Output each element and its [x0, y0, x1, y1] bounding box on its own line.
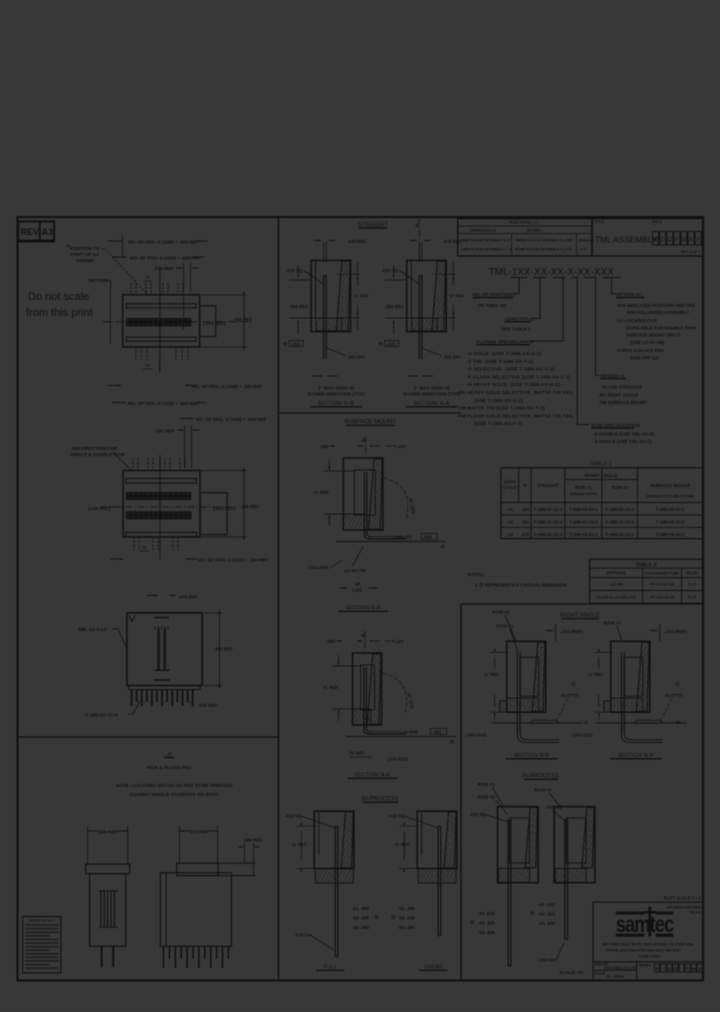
svg-text:-02 .200: -02 .200 — [398, 916, 415, 921]
svg-text:(.100 REF): (.100 REF) — [203, 321, 226, 326]
svg-text:OPTION #2: OPTION #2 — [616, 292, 641, 297]
svg-text:'A' REF: 'A' REF — [313, 490, 329, 495]
svg-text:PICK & PLACE PAD: PICK & PLACE PAD — [147, 765, 192, 771]
svg-text:PT-LS2-07-08: PT-LS2-07-08 — [650, 583, 674, 587]
svg-text:TML ASSEMBLY: TML ASSEMBLY — [595, 235, 658, 245]
svg-text:(.05±.01): (.05±.01) — [394, 535, 412, 540]
svg-text:.075 REF: .075 REF — [198, 703, 218, 708]
svg-text:DIMENSIONS IN: DIMENSIONS IN — [470, 228, 496, 232]
svg-text:.075 REF: .075 REF — [189, 829, 209, 834]
svg-text:F: F — [675, 237, 679, 244]
svg-text:(.05±.010): (.05±.010) — [572, 733, 593, 738]
svg-text:TML-XX-X-LC: TML-XX-X-LC — [78, 627, 108, 632]
svg-text:-S SELECTIVE- (USE T-1M6-XX-S: -S SELECTIVE- (USE T-1M6-XX-S-2) — [467, 367, 555, 373]
svg-text:OPTIONS: OPTIONS — [607, 571, 626, 576]
svg-text:PACKAGING TUBE: PACKAGING TUBE — [645, 572, 680, 576]
svg-text:6914416-LS-1-03: 6914416-LS-1-03 — [604, 965, 637, 970]
svg-text:.1XX: .1XX — [386, 342, 396, 347]
svg-text:(SINGLE ROW): (SINGLE ROW) — [570, 492, 598, 496]
svg-text:.025 REF: .025 REF — [347, 239, 366, 244]
svg-text:⊕: ⊕ — [374, 915, 379, 921]
svg-text:⊕: ⊕ — [440, 544, 445, 550]
svg-text:P-12: P-12 — [688, 594, 697, 599]
svg-text:ONE PLACE DECIMALS ± .1: ONE PLACE DECIMALS ± .1 — [461, 239, 510, 243]
svg-text:-05 THRU -50: -05 THRU -50 — [477, 303, 507, 308]
svg-text:EITHER DIRECTION (TYP): EITHER DIRECTION (TYP) — [403, 392, 460, 397]
svg-text:POSITION TO: POSITION TO — [70, 246, 100, 251]
svg-text:PLOT SCALE 1 = 1: PLOT SCALE 1 = 1 — [664, 896, 702, 901]
svg-text:EITHER DIRECTION (TYP): EITHER DIRECTION (TYP) — [308, 392, 365, 397]
svg-text:.075 REF: .075 REF — [443, 239, 462, 244]
svg-text:-LC-SM: -LC-SM — [609, 582, 624, 587]
svg-text:-03 .605: -03 .605 — [478, 930, 495, 935]
svg-text:(AVAILABLE FOR DOUBLE ROW: (AVAILABLE FOR DOUBLE ROW — [626, 325, 697, 330]
svg-text:from this print: from this print — [26, 307, 93, 319]
svg-text:.018 SQ: .018 SQ — [285, 814, 302, 819]
svg-text:LEAD STYLE: LEAD STYLE — [505, 317, 534, 322]
svg-text:DRAWN/CHECKED: DRAWN/CHECKED — [667, 906, 701, 910]
svg-text:.120: .120 — [395, 639, 404, 644]
svg-text:M: M — [655, 966, 659, 971]
svg-text:Do not scale: Do not scale — [28, 291, 89, 303]
svg-text:(USE LC-07-TM): (USE LC-07-TM) — [630, 340, 664, 345]
svg-text:TABLE 1: TABLE 1 — [590, 461, 612, 467]
svg-text:REV.: REV. — [21, 227, 41, 237]
svg-text:-03 .505: -03 .505 — [538, 921, 555, 926]
svg-text:'A' REF: 'A' REF — [323, 685, 339, 690]
svg-text:D: D — [667, 237, 672, 244]
svg-text:-02 .255: -02 .255 — [352, 916, 369, 921]
svg-text:PROPRIETARY NOTE: PROPRIETARY NOTE — [29, 919, 56, 923]
svg-text:.050 REF: .050 REF — [154, 266, 174, 271]
svg-text:-FM FLASH GOLD SELECTIVE, MATT: -FM FLASH GOLD SELECTIVE, MATTE TIN TAIL — [457, 413, 574, 419]
svg-text:T-1M6-05-XX-2: T-1M6-05-XX-2 — [605, 507, 634, 512]
svg-text:'A': 'A' — [522, 483, 527, 488]
svg-text:NO. OF POS. X (.020) + .150 RE: NO. OF POS. X (.020) + .150 REF — [192, 384, 263, 389]
svg-text:ROW #2: ROW #2 — [478, 795, 496, 800]
svg-text:D: D — [660, 237, 665, 244]
svg-text:AGAINST MIDDLE STANDOFF ON BOD: AGAINST MIDDLE STANDOFF ON BODY — [129, 792, 220, 797]
svg-text:.100 REF: .100 REF — [240, 504, 260, 509]
svg-text:T-1M6-04-XX-2: T-1M6-04-XX-2 — [569, 507, 598, 512]
svg-text:(USE T-1M6-XX-S-2): (USE T-1M6-XX-S-2) — [474, 398, 523, 404]
svg-text:PT-LS4-05-03: PT-LS4-05-03 — [650, 595, 674, 599]
svg-text:.050: .050 — [320, 444, 329, 449]
svg-text:'A' REF: 'A' REF — [588, 672, 604, 677]
svg-text:ROW #2: ROW #2 — [492, 610, 510, 615]
svg-text:NOTE: LOCATING NOTCH ON PAD TO: NOTE: LOCATING NOTCH ON PAD TO BE PRESSE… — [116, 783, 233, 788]
svg-text:⊕: ⊕ — [584, 720, 589, 726]
svg-text:'A' REF: 'A' REF — [353, 294, 369, 299]
svg-text:.020 DIA: .020 DIA — [347, 355, 366, 360]
svg-text:(.05±.010): (.05±.010) — [466, 733, 487, 738]
svg-text:(.020 REF): (.020 REF) — [213, 506, 236, 511]
svg-text:⊕: ⊕ — [530, 911, 535, 917]
svg-text:ROW #1: ROW #1 — [478, 782, 496, 787]
svg-text:-03 .455: -03 .455 — [352, 925, 369, 930]
svg-text:-01 .625: -01 .625 — [538, 902, 555, 907]
svg-text:W: W — [681, 237, 687, 244]
svg-text:.100: .100 — [521, 507, 530, 512]
svg-text:.250 REF: .250 REF — [233, 317, 253, 322]
svg-text:± 2°: ± 2° — [581, 248, 588, 252]
svg-text:-SM SURFACE MOUNT: -SM SURFACE MOUNT — [598, 400, 647, 405]
svg-text:TABLE 2: TABLE 2 — [635, 562, 656, 568]
svg-text:PHONE (812) 944-6733, FAX (812: PHONE (812) 944-6733, FAX (812) 948-5047 — [606, 948, 681, 952]
svg-text:M: M — [653, 237, 658, 244]
svg-text:SURFACE MOUNT: SURFACE MOUNT — [650, 483, 690, 488]
svg-text:.018 SQ: .018 SQ — [286, 268, 303, 273]
svg-text:ANGLES: ANGLES — [579, 239, 595, 243]
svg-text:.050 REF: .050 REF — [155, 429, 175, 434]
svg-text:FOR POLARIZED ASSEMBLY: FOR POLARIZED ASSEMBLY — [627, 310, 689, 315]
svg-text:-S SINGLE (USE TML-XX-S): -S SINGLE (USE TML-XX-S) — [593, 439, 652, 444]
svg-text:1. Ⓐ REPRESENTS A CRITICAL DI: 1. Ⓐ REPRESENTS A CRITICAL DIMENSION. — [475, 582, 568, 589]
svg-text:-01: -01 — [507, 507, 514, 512]
svg-text:X: X — [689, 237, 693, 244]
svg-text:(REV): (REV) — [652, 220, 663, 224]
svg-text:⊕: ⊕ — [571, 681, 577, 688]
svg-text:-01 .625: -01 .625 — [478, 911, 495, 916]
svg-text:.01 (TYP): .01 (TYP) — [560, 693, 580, 698]
svg-text:.003: .003 — [423, 535, 432, 540]
svg-text:.050: .050 — [326, 639, 335, 644]
svg-text:.050 REF: .050 REF — [243, 838, 263, 843]
svg-text:ROW SPECIFICATION: ROW SPECIFICATION — [591, 423, 640, 428]
svg-text:-F FLASH SELECTIVE (USE T-1M6: -F FLASH SELECTIVE (USE T-1M6-XX-F-2) — [467, 374, 571, 380]
svg-text:SCALE: 8X: SCALE: 8X — [559, 970, 584, 975]
svg-text:.018 DIA: .018 DIA — [538, 958, 557, 963]
svg-text:SURFACE MOUNT ONLY): SURFACE MOUNT ONLY) — [626, 333, 681, 338]
svg-text:T-1M6-14-XX-2: T-1M6-14-XX-2 — [569, 532, 598, 537]
svg-text:'A': 'A' — [142, 545, 147, 550]
svg-text:(.02±.010): (.02±.010) — [387, 757, 408, 762]
svg-text:TML-1XX-XX-XX-X-XX-XXX: TML-1XX-XX-XX-X-XX-XXX — [489, 267, 615, 278]
svg-text:⊕: ⊕ — [450, 739, 455, 745]
svg-text:LEAD: LEAD — [504, 479, 516, 484]
svg-text:-02 .315: -02 .315 — [538, 912, 555, 917]
svg-text:OPTION #1: OPTION #1 — [600, 373, 625, 378]
svg-text:INCHES ±: INCHES ± — [527, 228, 543, 232]
svg-text:RIGHT ANGLE: RIGHT ANGLE — [585, 473, 619, 479]
svg-text:NO. OF POS. X (.020) + .008 RE: NO. OF POS. X (.020) + .008 REF — [128, 240, 199, 245]
svg-text:.060 REF: .060 REF — [289, 304, 308, 309]
svg-text:-T TIN- (USE T-1M6-XX-T-2): -T TIN- (USE T-1M6-XX-T-2) — [467, 359, 534, 365]
svg-text:.01 (TYP): .01 (TYP) — [664, 693, 684, 698]
svg-text:-02: -02 — [507, 519, 514, 524]
svg-text:-01 .250: -01 .250 — [398, 906, 415, 911]
svg-text:STRAIGHT: STRAIGHT — [537, 483, 559, 488]
svg-text:BLANK STRAIGHT: BLANK STRAIGHT — [602, 385, 642, 390]
svg-text:NO. OF POSITIONS: NO. OF POSITIONS — [473, 292, 516, 297]
svg-text:D: D — [674, 966, 677, 971]
svg-text:.170: .170 — [521, 532, 530, 537]
svg-text:⊕: ⊕ — [675, 681, 681, 688]
svg-text:'A': 'A' — [145, 275, 150, 280]
svg-text:FOUR PLACE DECIMALS ± (.XX): FOUR PLACE DECIMALS ± (.XX) — [515, 248, 572, 252]
svg-text:T-1M6-25-XX-2: T-1M6-25-XX-2 — [534, 532, 563, 537]
svg-text:.018 SQ: .018 SQ — [381, 268, 398, 273]
svg-text:-01 .400: -01 .400 — [352, 906, 369, 911]
svg-text:NO. OF POS. X (.020) + .025 RE: NO. OF POS. X (.020) + .025 REF — [196, 417, 267, 422]
svg-text:ROW #1: ROW #1 — [534, 788, 552, 793]
svg-text:(.100 REF): (.100 REF) — [88, 506, 111, 511]
svg-text:TITLE: TITLE — [595, 220, 606, 224]
svg-text:⊕: ⊕ — [676, 720, 681, 726]
svg-text:.1XX: .1XX — [291, 342, 301, 347]
svg-text:.1XX (REF): .1XX (REF) — [664, 629, 688, 634]
svg-text:PRINT UP AS: PRINT UP AS — [70, 252, 99, 257]
svg-text:.45: .45 — [354, 582, 361, 587]
svg-text:samtec: samtec — [616, 912, 675, 938]
svg-text:P-12: P-12 — [688, 582, 697, 587]
svg-text:T-1M6-15-XX-2: T-1M6-15-XX-2 — [569, 519, 598, 524]
svg-text:-G GOLD- (USE T-1M6-XX-G-2): -G GOLD- (USE T-1M6-XX-G-2) — [467, 351, 542, 357]
svg-text:-RA RIGHT ANGLE: -RA RIGHT ANGLE — [598, 392, 638, 397]
svg-text:'A' REF: 'A' REF — [449, 294, 465, 299]
svg-text:FUNCTIONAL ± 2: FUNCTIONAL ± 2 — [509, 221, 538, 225]
svg-text:⊕: ⊕ — [378, 342, 383, 348]
svg-text:.003: .003 — [433, 730, 442, 735]
svg-text:X: X — [696, 237, 700, 244]
svg-text:-03 .300: -03 .300 — [398, 925, 415, 930]
svg-text:T-1M6-15-XX-2: T-1M6-15-XX-2 — [534, 519, 563, 524]
svg-text:.018 SQ: .018 SQ — [388, 814, 405, 819]
svg-text:2° MAX SWAY IN: 2° MAX SWAY IN — [318, 386, 355, 391]
svg-text:-02 .625: -02 .625 — [478, 921, 495, 926]
svg-text:PIN DIRECTION FOR: PIN DIRECTION FOR — [72, 446, 118, 451]
svg-text:-P PICK & PLACE PAD: -P PICK & PLACE PAD — [616, 348, 665, 353]
svg-text:B. OKEN: B. OKEN — [607, 974, 624, 979]
svg-text:XX-XX: XX-XX — [690, 911, 702, 915]
svg-text:ROW #1: ROW #1 — [604, 621, 622, 626]
svg-text:SEE TABLE 1: SEE TABLE 1 — [501, 326, 531, 331]
svg-text:.250 REF: .250 REF — [98, 829, 118, 834]
svg-text:T-1M6-15-XX-2: T-1M6-15-XX-2 — [605, 519, 634, 524]
svg-text:2° MAX SWAY IN: 2° MAX SWAY IN — [414, 386, 451, 391]
svg-text:NOTES:: NOTES: — [467, 572, 485, 577]
svg-text:PLUG: PLUG — [686, 571, 698, 576]
svg-text:(SINGLE & DOUBLE ROW): (SINGLE & DOUBLE ROW) — [646, 495, 695, 499]
svg-text:LC-XX-TM: LC-XX-TM — [344, 568, 366, 573]
svg-text:ROW #1: ROW #1 — [575, 485, 592, 490]
svg-text:STYLE: STYLE — [503, 485, 517, 490]
svg-text:SHOWN: SHOWN — [76, 258, 94, 263]
svg-text:T-1M6-05-XX-2: T-1M6-05-XX-2 — [656, 507, 685, 512]
svg-text:SCALE: SCALE — [595, 972, 606, 976]
svg-text:T-1M6-07-XX-2: T-1M6-07-XX-2 — [534, 507, 563, 512]
svg-text:T-1M6-05-XX-2: T-1M6-05-XX-2 — [656, 519, 685, 524]
svg-text:⊕: ⊕ — [470, 920, 475, 926]
svg-text:(-D-SM-X), (-D-SM-LC-P: (-D-SM-X), (-D-SM-LC-P — [596, 595, 636, 599]
svg-text:NO. OF POS. X (.020) + .028 RE: NO. OF POS. X (.020) + .028 REF — [130, 256, 201, 261]
svg-text:.05 REF: .05 REF — [348, 751, 365, 756]
svg-text:'A': 'A' — [145, 363, 150, 368]
svg-text:520 PARK EAST BLVD. NEW ALBANY: 520 PARK EAST BLVD. NEW ALBANY, IN 47150… — [602, 943, 694, 947]
svg-text:(.65): (.65) — [352, 588, 362, 593]
svg-text:.018 SQ: .018 SQ — [545, 805, 562, 810]
svg-text:(USE PPF-22): (USE PPF-22) — [630, 355, 659, 360]
svg-text:NO. OF POS. X (.020) + .028 RE: NO. OF POS. X (.020) + .028 REF — [128, 401, 199, 406]
svg-text:-D DOUBLE (USE TML-XX-D): -D DOUBLE (USE TML-XX-D) — [593, 432, 655, 437]
svg-text:-LC LOCKING CLIP: -LC LOCKING CLIP — [616, 318, 657, 323]
svg-text:X: X — [698, 966, 701, 971]
svg-text:.060 POS.: .060 POS. — [88, 278, 108, 283]
svg-text:TM MATTE TIN (USE T-1M6-XX-T-: TM MATTE TIN (USE T-1M6-XX-T-2) — [459, 406, 545, 412]
svg-text:'A' REF: 'A' REF — [484, 672, 500, 677]
svg-text:.062: .062 — [521, 519, 530, 524]
svg-text:'A' REF: 'A' REF — [394, 842, 410, 847]
svg-text:TWO PLACE DECIMALS ± .01: TWO PLACE DECIMALS ± .01 — [461, 248, 513, 252]
svg-text:T-1M6-XX-XX-X: T-1M6-XX-XX-X — [85, 713, 119, 718]
svg-text:.250 REF: .250 REF — [385, 304, 404, 309]
svg-text:-H HEAVY GOLD- (USE T-1M6-XX-: -H HEAVY GOLD- (USE T-1M6-XX-H-2) — [467, 382, 560, 388]
svg-text:T-1M6-15-XX-2: T-1M6-15-XX-2 — [605, 532, 634, 537]
svg-text:(.02±.007): (.02±.007) — [308, 565, 329, 570]
svg-text:F: F — [686, 966, 689, 971]
svg-text:CODE 55322: CODE 55322 — [639, 955, 661, 959]
svg-text:THREE PLACE DECIMALS ± .005: THREE PLACE DECIMALS ± .005 — [515, 239, 573, 243]
svg-text:'A' REF: 'A' REF — [291, 842, 307, 847]
svg-text:-P20 INDICATES POSITION OMITT: -P20 INDICATES POSITION OMITTED — [616, 303, 696, 308]
svg-text:A3: A3 — [42, 227, 53, 237]
svg-text:⊕: ⊕ — [391, 915, 396, 921]
svg-text:(⌀.003): (⌀.003) — [404, 730, 419, 735]
svg-text:SHT 1 of 1: SHT 1 of 1 — [680, 249, 700, 254]
svg-text:⊕: ⊕ — [283, 342, 288, 348]
svg-text:PLATING SPECIFICATION: PLATING SPECIFICATION — [476, 340, 534, 345]
svg-text:.1XX (REF): .1XX (REF) — [560, 629, 584, 634]
svg-text:.020 DIA: .020 DIA — [443, 355, 462, 360]
svg-text:.350 REF: .350 REF — [214, 647, 234, 652]
svg-text:.1XX: .1XX — [396, 444, 406, 449]
svg-text:(USE T-1M6-XX-F-2): (USE T-1M6-XX-F-2) — [474, 421, 523, 427]
svg-text:D: D — [668, 966, 671, 971]
svg-text:-03: -03 — [507, 532, 514, 537]
svg-text:.075 REF: .075 REF — [178, 595, 198, 600]
svg-text:T-1M6-05-XX-2: T-1M6-05-XX-2 — [656, 532, 685, 537]
svg-text:NO. OF POS. X (.020) + .150 RE: NO. OF POS. X (.020) + .150 REF — [198, 558, 269, 563]
svg-text:.018 SQ: .018 SQ — [469, 812, 486, 817]
svg-text:MODEL: MODEL — [640, 963, 652, 967]
svg-text:ROW #2: ROW #2 — [611, 485, 628, 490]
svg-text:-SN HEAVY GOLD SELECTIVE, MATT: -SN HEAVY GOLD SELECTIVE, MATTE TIN TAIL — [457, 390, 574, 396]
svg-text:ROW #1: ROW #1 — [496, 624, 514, 629]
